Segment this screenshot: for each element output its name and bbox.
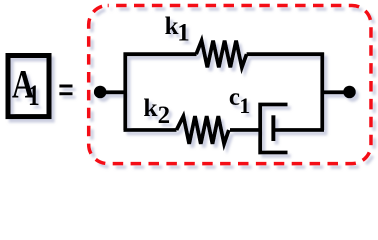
damper c1 cylinder [260, 105, 287, 153]
svg-text:k1: k1 [165, 13, 190, 47]
damper c1 piston [271, 115, 275, 141]
label A1 box [8, 56, 49, 117]
wire bottom-mid [230, 128, 260, 132]
wire right vertical [320, 53, 324, 131]
wire top-left [124, 52, 197, 56]
boundary box (red dashed) [89, 6, 371, 164]
wire bottom-left [124, 128, 177, 132]
wire left stub [100, 90, 127, 94]
spring k1 [196, 41, 246, 68]
wire top-right [247, 52, 324, 56]
wire damper rod [274, 128, 325, 132]
svg-text:c1: c1 [229, 84, 250, 118]
wire right stub [322, 90, 350, 94]
node left [94, 86, 107, 99]
spring k2 [177, 116, 229, 144]
equals sign [59, 86, 72, 94]
wire left vertical [123, 53, 127, 131]
svg-text:A1: A1 [12, 62, 40, 112]
svg-text:k2: k2 [143, 93, 170, 129]
node right [343, 86, 356, 99]
